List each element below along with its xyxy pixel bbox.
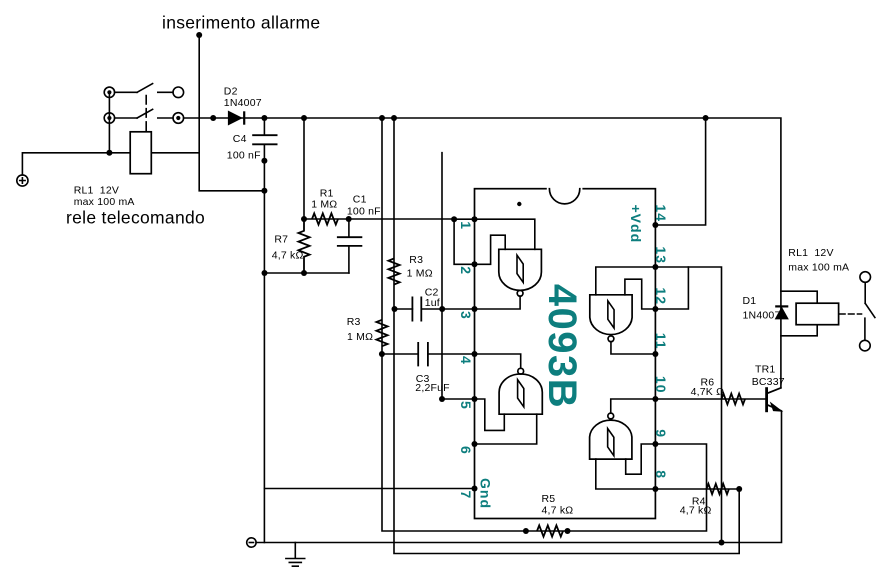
wire pin7 ground row (265, 488, 475, 490)
wire ground row minus terminal to emitter (256, 411, 781, 543)
wire pin14 to top rail (655, 118, 705, 225)
svg-text:R3: R3 (409, 254, 423, 266)
wire right bus x=394 down bottom row up to R4 right (394, 118, 739, 554)
svg-text:1N4007: 1N4007 (224, 97, 262, 109)
svg-text:1N4007: 1N4007 (743, 310, 781, 322)
wire pin4 row left lead to C3 (382, 353, 418, 355)
svg-text:6: 6 (458, 446, 474, 455)
terminal right switch bottom (860, 340, 871, 351)
svg-text:C4: C4 (233, 133, 247, 145)
ground symbol (286, 543, 305, 567)
wire gate3 output to pin11 (611, 342, 655, 354)
svg-text:4,7 kΩ: 4,7 kΩ (680, 505, 712, 517)
wire gate2 input pin6 (475, 414, 537, 444)
wire C4 top lead (263, 118, 265, 135)
terminal minus (247, 538, 256, 547)
wire inserimento allarme net (vertical drop to relay row corner) (199, 35, 264, 191)
resistor R4 (707, 484, 729, 494)
op-amp gate U1D NAND (pins 8,9 in, 10 out) (590, 420, 632, 459)
wire x=442 net to pin5 (442, 153, 475, 399)
resistor R3 upper (388, 259, 399, 285)
terminal right switch top (860, 272, 871, 283)
wire gate2 input pin5 (475, 399, 505, 430)
mechanical link dashed RL1 (145, 96, 147, 131)
svg-text:2: 2 (458, 266, 474, 275)
svg-text:RL1 12V: RL1 12V (74, 184, 119, 196)
capacitor C3 (418, 342, 428, 366)
svg-text:13: 13 (653, 246, 669, 264)
switch lever right (865, 303, 875, 317)
svg-text:Gnd: Gnd (478, 478, 494, 509)
resistor R7 (298, 219, 309, 273)
wire C4 bottom lead and left vertical bus x=264 (263, 144, 265, 542)
wire pin13 to bottom ground row (655, 267, 721, 543)
svg-text:4,7 kΩ: 4,7 kΩ (542, 505, 574, 517)
svg-text:1uf: 1uf (425, 297, 440, 309)
svg-text:1 MΩ: 1 MΩ (347, 331, 373, 343)
svg-text:TR1: TR1 (755, 364, 775, 376)
svg-text:9: 9 (653, 429, 669, 438)
diode D1 (775, 306, 788, 319)
svg-text:4: 4 (458, 356, 474, 365)
wire C2 left lead (394, 308, 412, 310)
wire left terminals vertical (108, 92, 110, 153)
IC notch (549, 187, 581, 191)
capacitor C1 (337, 237, 362, 246)
wire gate4 output to pin10 (611, 399, 656, 413)
capacitor C4 (252, 135, 277, 144)
svg-text:4093B: 4093B (540, 284, 584, 409)
svg-text:R1: R1 (320, 187, 334, 199)
wire gate3 input pin12 (625, 279, 656, 309)
svg-text:R5: R5 (542, 493, 556, 505)
svg-text:3: 3 (458, 311, 474, 320)
wire pin1 row and jog to pin2 (454, 219, 474, 264)
svg-text:12: 12 (653, 287, 669, 305)
resistor R5 (537, 525, 563, 536)
terminal bullseye bottom-left (104, 113, 114, 123)
svg-text:R3: R3 (347, 316, 361, 328)
wire pin3 row from C2 to gate1 output (421, 296, 520, 309)
terminal bullseye top-left (104, 87, 114, 97)
svg-text:D1: D1 (743, 295, 757, 307)
wire top switch left lead (115, 91, 138, 93)
svg-text:4,7K Ω: 4,7K Ω (691, 386, 725, 398)
capacitor C2 (412, 297, 421, 322)
wire relay RL1 right bottom lead (781, 325, 817, 336)
svg-text:1 MΩ: 1 MΩ (311, 199, 337, 211)
wire top +12V rail from switch to right corner down to collector (184, 118, 781, 388)
svg-text:R7: R7 (274, 234, 288, 246)
wire pin8 row to R4 (655, 488, 739, 490)
svg-text:4,7 kΩ: 4,7 kΩ (272, 250, 304, 262)
svg-text:inserimento allarme: inserimento allarme (162, 13, 320, 33)
svg-text:100 nF: 100 nF (347, 205, 381, 217)
svg-text:100 nF: 100 nF (227, 149, 261, 161)
wire gate1 input pin1 (475, 219, 535, 249)
op-amp gate U1B NAND (pins 5,6 in, 4 out) (499, 374, 542, 414)
svg-text:1: 1 (458, 221, 474, 230)
relay RL1 coil (right) (796, 303, 839, 325)
svg-text:max 100 mA: max 100 mA (74, 196, 135, 208)
op-amp gate U1C NAND (pins 12,13 in, 11 out) (590, 295, 632, 335)
wire pin13-pin12 jog (655, 267, 688, 309)
wire gate1 input pin2 (475, 235, 506, 264)
switch lever top (137, 84, 153, 93)
diode D2 (228, 111, 244, 124)
transistor Q1 TR1 BC337 (767, 387, 782, 412)
wire right switch top lead (864, 282, 866, 303)
wire right switch bottom lead (864, 318, 866, 340)
IC U1 4093B body (475, 189, 656, 519)
wire gate4 input pin8 (596, 459, 656, 489)
relay RL1 coil (telecomando) (130, 132, 151, 174)
wire bottom switch right stub (158, 117, 173, 119)
svg-text:+Vdd: +Vdd (628, 205, 644, 244)
switch lever bottom (137, 109, 153, 118)
wire C1 bottom stub (348, 246, 350, 273)
mechanical link dashed RL1 right (840, 313, 862, 315)
terminal open circle top switch right (173, 87, 184, 98)
svg-text:10: 10 (653, 376, 669, 394)
svg-text:rele telecomando: rele telecomando (66, 208, 205, 228)
svg-text:D2: D2 (224, 85, 238, 97)
op-amp gate U1A NAND (pins 1,2 in, 3 out) (499, 249, 542, 290)
resistor R6 (722, 394, 746, 405)
wire gate3 input pin13 (596, 267, 656, 295)
svg-text:max 100 mA: max 100 mA (788, 262, 849, 274)
wire gate4 input pin9 (626, 444, 656, 474)
svg-text:BC337: BC337 (752, 376, 785, 388)
svg-text:RL1 12V: RL1 12V (788, 247, 833, 259)
resistor R3 lower (376, 320, 387, 346)
resistor R1 (312, 213, 338, 224)
terminal bullseye bottom switch right (173, 113, 184, 124)
svg-text:C1: C1 (353, 193, 367, 205)
svg-text:14: 14 (653, 204, 669, 222)
svg-text:2,2FuF: 2,2FuF (415, 382, 449, 394)
svg-text:5: 5 (458, 401, 474, 410)
wire plus terminal to relay coil row (22, 153, 199, 175)
wire left bus x=382 down and R5 row up to pin9 (382, 118, 707, 531)
svg-text:7: 7 (458, 491, 474, 500)
wire R1 node drop from rail (303, 118, 305, 219)
svg-text:8: 8 (653, 470, 669, 479)
wire C1 top stub (348, 219, 350, 237)
wire R1/C1 row to pin1 jog (304, 218, 454, 220)
wire pin4 row from C3 to gate2 bubble (428, 354, 521, 368)
svg-text:1 MΩ: 1 MΩ (407, 268, 433, 280)
wire bottom switch left lead (115, 117, 138, 119)
wire relay RL1 right top lead (781, 291, 817, 303)
wire R7 bottom row (265, 272, 349, 274)
svg-text:11: 11 (653, 333, 669, 350)
terminal plus (17, 175, 28, 186)
wire pin10 row to transistor base (655, 398, 766, 400)
wire top switch right stub (158, 91, 173, 93)
